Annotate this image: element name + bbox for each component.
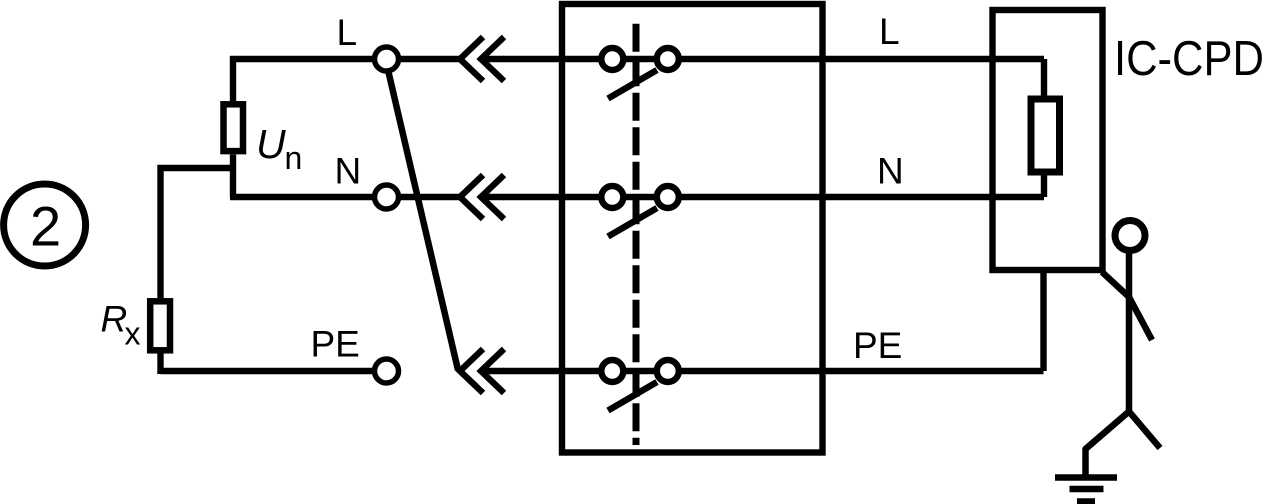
- svg-text:PE: PE: [311, 324, 360, 365]
- switch pole PE blade: [608, 382, 657, 411]
- switch pole PE left contact: [601, 360, 623, 382]
- wire Un top branch: [230, 56, 236, 101]
- svg-text:L: L: [337, 12, 358, 53]
- mechanical linkage dashed line: [633, 24, 640, 445]
- figure number circle 2: [4, 184, 86, 266]
- wire N left segment: [230, 194, 460, 200]
- terminal L: [375, 47, 399, 71]
- earth ground line 1: [1055, 474, 1117, 480]
- switch pole PE right contact: [657, 360, 679, 382]
- source Un: [224, 104, 244, 151]
- wire PE up to enclosure: [1040, 270, 1046, 371]
- wire load bottom: [1041, 176, 1047, 198]
- person head: [1115, 221, 1145, 251]
- terminal N: [375, 185, 399, 209]
- wire PE right segment: [481, 368, 1044, 374]
- person right leg: [1129, 412, 1160, 449]
- chevron plug PE: [460, 349, 504, 393]
- svg-text:PE: PE: [853, 325, 902, 366]
- person arm touching enclosure: [1102, 272, 1152, 340]
- wire N middle segment: [481, 194, 1044, 200]
- earth ground line 3: [1077, 498, 1095, 504]
- switch pole N blade: [608, 208, 657, 237]
- svg-text:N: N: [877, 151, 904, 192]
- switch pole N left contact: [601, 186, 623, 208]
- svg-text:x: x: [125, 316, 141, 352]
- person left leg: [1086, 412, 1130, 478]
- switch pole L left contact: [601, 48, 623, 70]
- svg-text:2: 2: [30, 195, 61, 258]
- wire L middle segment: [481, 56, 1044, 62]
- terminal PE: [375, 359, 399, 383]
- svg-text:n: n: [285, 140, 303, 176]
- wire PE left segment from Rx: [161, 368, 384, 374]
- wire Un bottom branch: [230, 155, 236, 198]
- wire L left segment: [230, 56, 460, 62]
- svg-text:R: R: [101, 299, 128, 340]
- switch pole N right contact: [657, 186, 679, 208]
- load resistor in IC-CPD: [1031, 99, 1060, 172]
- switch pole L right contact: [657, 48, 679, 70]
- earth ground line 2: [1070, 486, 1104, 492]
- IC-CPD enclosure box: [993, 10, 1103, 270]
- svg-text:U: U: [256, 121, 286, 167]
- switch pole L blade: [608, 70, 657, 99]
- wire load top: [1041, 59, 1047, 96]
- switching device box: [562, 4, 823, 453]
- wire Rx bottom: [157, 354, 163, 375]
- wire Rx branch: [161, 168, 237, 298]
- svg-text:N: N: [335, 151, 362, 192]
- person body: [1126, 250, 1133, 412]
- resistor Rx: [150, 301, 170, 350]
- plug withdrawal diagonal: [388, 70, 458, 370]
- svg-text:IC-CPD: IC-CPD: [1114, 32, 1264, 86]
- chevron plug N: [460, 175, 504, 219]
- chevron plug L: [460, 37, 504, 81]
- svg-text:L: L: [879, 11, 900, 52]
